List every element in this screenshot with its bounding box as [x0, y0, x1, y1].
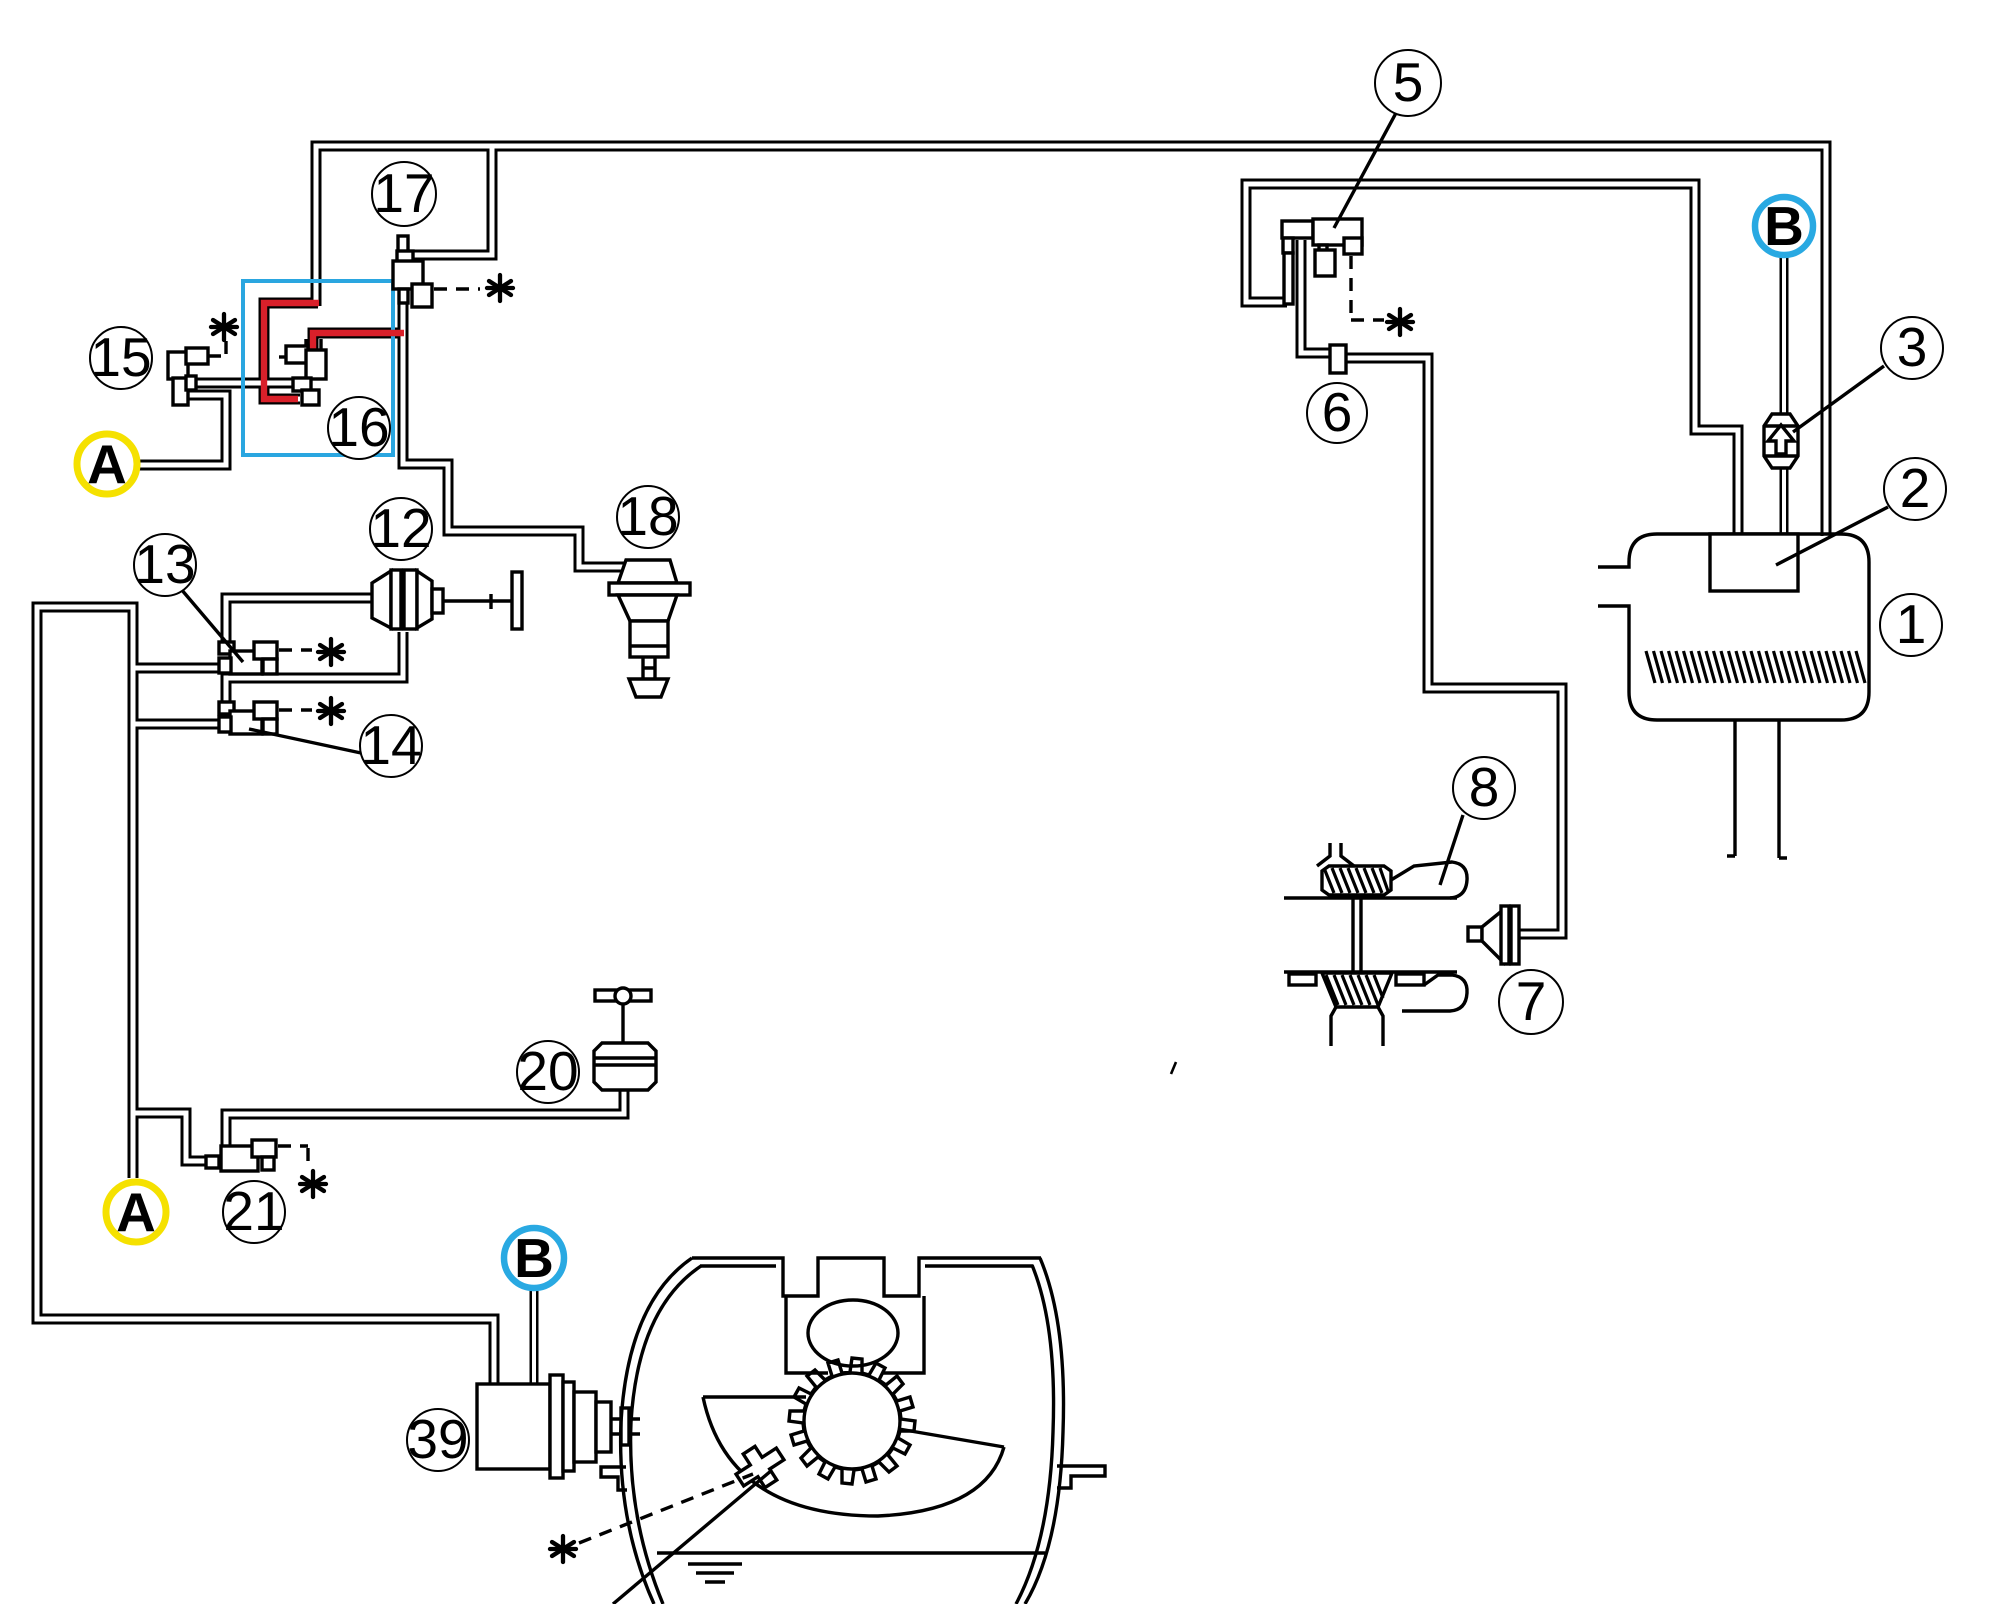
leader for 14 — [249, 729, 361, 753]
wire: valve 5 to connector 6 — [1301, 240, 1332, 353]
wire: main top hose from red junction, across top, down to tank — [316, 146, 1826, 536]
svg-text:5: 5 — [1393, 51, 1424, 113]
wire: branch to valve 14 — [133, 719, 222, 730]
front differential cross-section (lower gear, actuator 7 side) — [1284, 972, 1467, 1046]
svg-text:20: 20 — [517, 1040, 578, 1102]
node 5 — [1375, 50, 1441, 116]
asterisk for valve 13 — [318, 639, 344, 665]
svg-text:21: 21 — [223, 1180, 284, 1242]
svg-text:B: B — [514, 1227, 554, 1289]
svg-text:15: 15 — [90, 326, 151, 388]
svg-text:A: A — [87, 433, 127, 495]
wire: connector 6 to actuator 7 — [1344, 358, 1562, 934]
svg-text:3: 3 — [1897, 316, 1928, 378]
node 1 — [1880, 593, 1942, 656]
node 15 — [90, 326, 152, 389]
stray mark — [1171, 1062, 1176, 1074]
solenoid valve assembly 5 — [1282, 219, 1384, 320]
wire: valve 17 down-line to actuator 18 — [403, 298, 624, 567]
leader for 2 — [1776, 507, 1888, 565]
asterisk for valve 17 — [487, 275, 513, 301]
wire: red highlighted hose (valve 16 top to down-line) — [313, 333, 404, 350]
wire: branch to valve 13 — [133, 663, 222, 674]
leader for 5 — [1334, 113, 1396, 228]
svg-text:16: 16 — [328, 396, 389, 458]
svg-text:1: 1 — [1896, 593, 1927, 655]
wire: valve 21 to accumulator 20 — [226, 1088, 624, 1148]
node 16 — [328, 396, 390, 459]
leader for 13 — [181, 589, 243, 662]
actuator 12 (bellows servo) — [372, 570, 522, 629]
wire: connector A line, hairpin loop and run to motor 39 — [37, 607, 494, 1386]
svg-text:B: B — [1764, 195, 1804, 257]
wire: B (top) through check valve 3 into tank — [1780, 257, 1789, 416]
wire: under red - top hose junction down to valve 16 lower pipe — [264, 303, 318, 399]
wire: red highlighted hose (top junction to valve 16 bottom) — [264, 303, 319, 399]
node 2 — [1884, 457, 1946, 520]
motor actuator 39 — [477, 1375, 640, 1478]
solenoid valve 15 — [168, 338, 226, 405]
asterisk for valve 21 — [300, 1171, 326, 1197]
gear wheel — [789, 1358, 915, 1484]
asterisk for valve 5 — [1387, 309, 1413, 335]
check valve 3 — [1764, 414, 1798, 468]
svg-text:7: 7 — [1516, 970, 1547, 1032]
connector B (bottom) — [504, 1227, 564, 1289]
svg-text:39: 39 — [407, 1408, 468, 1470]
connector A (top) — [77, 433, 137, 495]
node 3 — [1881, 316, 1943, 379]
thin hoses for B connectors — [534, 257, 1784, 1386]
asterisk for valve 14 — [318, 698, 344, 724]
asterisk for transfer case switch — [550, 1536, 576, 1562]
oil level — [657, 1551, 1045, 1554]
connector B (top) — [1755, 195, 1813, 257]
svg-text:2: 2 — [1900, 457, 1931, 519]
tank internal box 2 — [1710, 534, 1798, 591]
asterisk for valve 15 — [211, 314, 237, 340]
node 18 — [617, 485, 679, 548]
actuator 7 — [1468, 906, 1519, 964]
node 39 — [407, 1408, 469, 1471]
node 14 — [360, 714, 422, 777]
svg-text:13: 13 — [134, 533, 195, 595]
solenoid valve 21 — [206, 1140, 308, 1171]
tank outlet pipes — [1727, 720, 1735, 856]
wire: branch to valve 21 — [133, 1113, 212, 1161]
wire: B (bottom) to motor 39 — [530, 1289, 539, 1386]
svg-text:A: A — [116, 1181, 156, 1243]
vacuum tank 1 — [1598, 534, 1869, 720]
wire: branch down to solenoid valve 17 — [412, 146, 492, 255]
wire: loop from valve 5 left pipe to vacuum tank — [1246, 184, 1738, 536]
node 8 — [1453, 756, 1515, 819]
wire: connector A (top) to valve 15 — [136, 395, 226, 465]
accumulator 20 with shut valve — [594, 988, 656, 1090]
node 17 — [372, 162, 436, 226]
wire: actuator 12 bottom to valve 14 top — [226, 632, 403, 706]
leader into fork — [613, 1470, 772, 1604]
solenoid valve 17 — [393, 236, 480, 307]
wire: actuator 12 to valve 13 top — [226, 598, 375, 647]
leader for 8 — [1440, 815, 1463, 885]
wire: valve 15 to valve 16 — [186, 378, 295, 389]
svg-text:17: 17 — [373, 162, 434, 224]
svg-text:18: 18 — [617, 485, 678, 547]
svg-text:8: 8 — [1469, 756, 1500, 818]
left flange — [601, 1467, 627, 1490]
svg-text:14: 14 — [360, 714, 421, 776]
wire: under red - valve 16 top to down-line — [313, 333, 401, 352]
node 21 — [223, 1180, 285, 1243]
node 13 — [134, 533, 196, 596]
front differential cross-section 8 (upper gear) — [1284, 843, 1467, 898]
svg-text:12: 12 — [370, 497, 431, 559]
node 7 — [1499, 970, 1563, 1034]
propeller shaft between gears — [1353, 895, 1361, 973]
sector plate — [703, 1395, 806, 1398]
blue highlight rectangle around valve 16 — [243, 281, 393, 455]
solenoid valve 14 — [219, 702, 312, 734]
right flange — [1057, 1466, 1105, 1488]
node 12 — [370, 497, 432, 560]
leader for 3 — [1793, 366, 1884, 432]
connector A (bottom) — [106, 1181, 166, 1243]
connector 6 — [1330, 345, 1346, 373]
solenoid valve 16 — [279, 339, 326, 405]
transfer case housing — [579, 1258, 1105, 1604]
actuator 18 — [609, 560, 690, 697]
node 20 — [517, 1040, 579, 1103]
shift fork — [729, 1437, 791, 1497]
node 6 — [1307, 381, 1367, 443]
dashed to fork — [579, 1474, 753, 1543]
solenoid valve 13 — [219, 642, 312, 674]
svg-text:6: 6 — [1322, 381, 1353, 443]
